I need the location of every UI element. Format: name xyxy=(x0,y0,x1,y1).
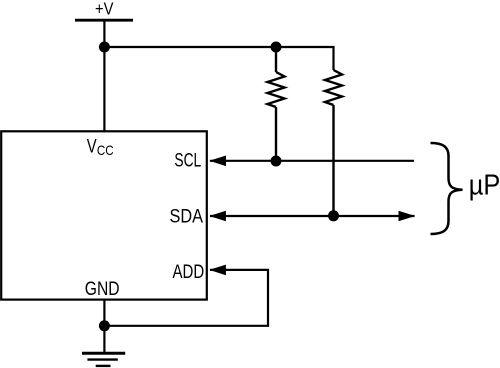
SCL wire xyxy=(210,160,414,162)
ADD arrowhead into IC xyxy=(209,265,226,276)
svg-text:V: V xyxy=(87,136,97,157)
brace for uP xyxy=(431,143,463,234)
ground symbol xyxy=(82,353,125,366)
SDA arrowhead toward uP xyxy=(399,211,416,222)
wire: +V rail to pull-up resistors xyxy=(104,47,333,70)
svg-text:ADD: ADD xyxy=(173,261,205,283)
resistor R1 (SCL pull-up) xyxy=(268,47,285,161)
svg-text:µP: µP xyxy=(469,169,500,201)
junction dot: R1 top xyxy=(271,42,282,53)
svg-text:CC: CC xyxy=(97,143,114,158)
SDA arrowhead into IC xyxy=(209,211,226,222)
wire: +V bar down to VCC pin xyxy=(103,20,105,131)
svg-text:+V: +V xyxy=(95,0,114,19)
junction dot: SDA / R2 xyxy=(328,210,339,221)
junction dot: SCL / R1 xyxy=(271,156,282,167)
resistor R2 (SDA pull-up) xyxy=(325,70,342,216)
+V supply bar xyxy=(75,19,133,22)
svg-text:GND: GND xyxy=(85,278,120,300)
junction dot: +V node xyxy=(99,42,110,53)
svg-text:SDA: SDA xyxy=(170,205,204,227)
SCL arrowhead into IC xyxy=(209,156,226,167)
wire: GND pin down to ground xyxy=(103,300,105,353)
junction dot: GND node xyxy=(99,320,110,331)
svg-text:SCL: SCL xyxy=(174,149,201,171)
SDA wire xyxy=(210,215,415,217)
ADD wire xyxy=(104,270,268,326)
IC box xyxy=(1,131,207,299)
